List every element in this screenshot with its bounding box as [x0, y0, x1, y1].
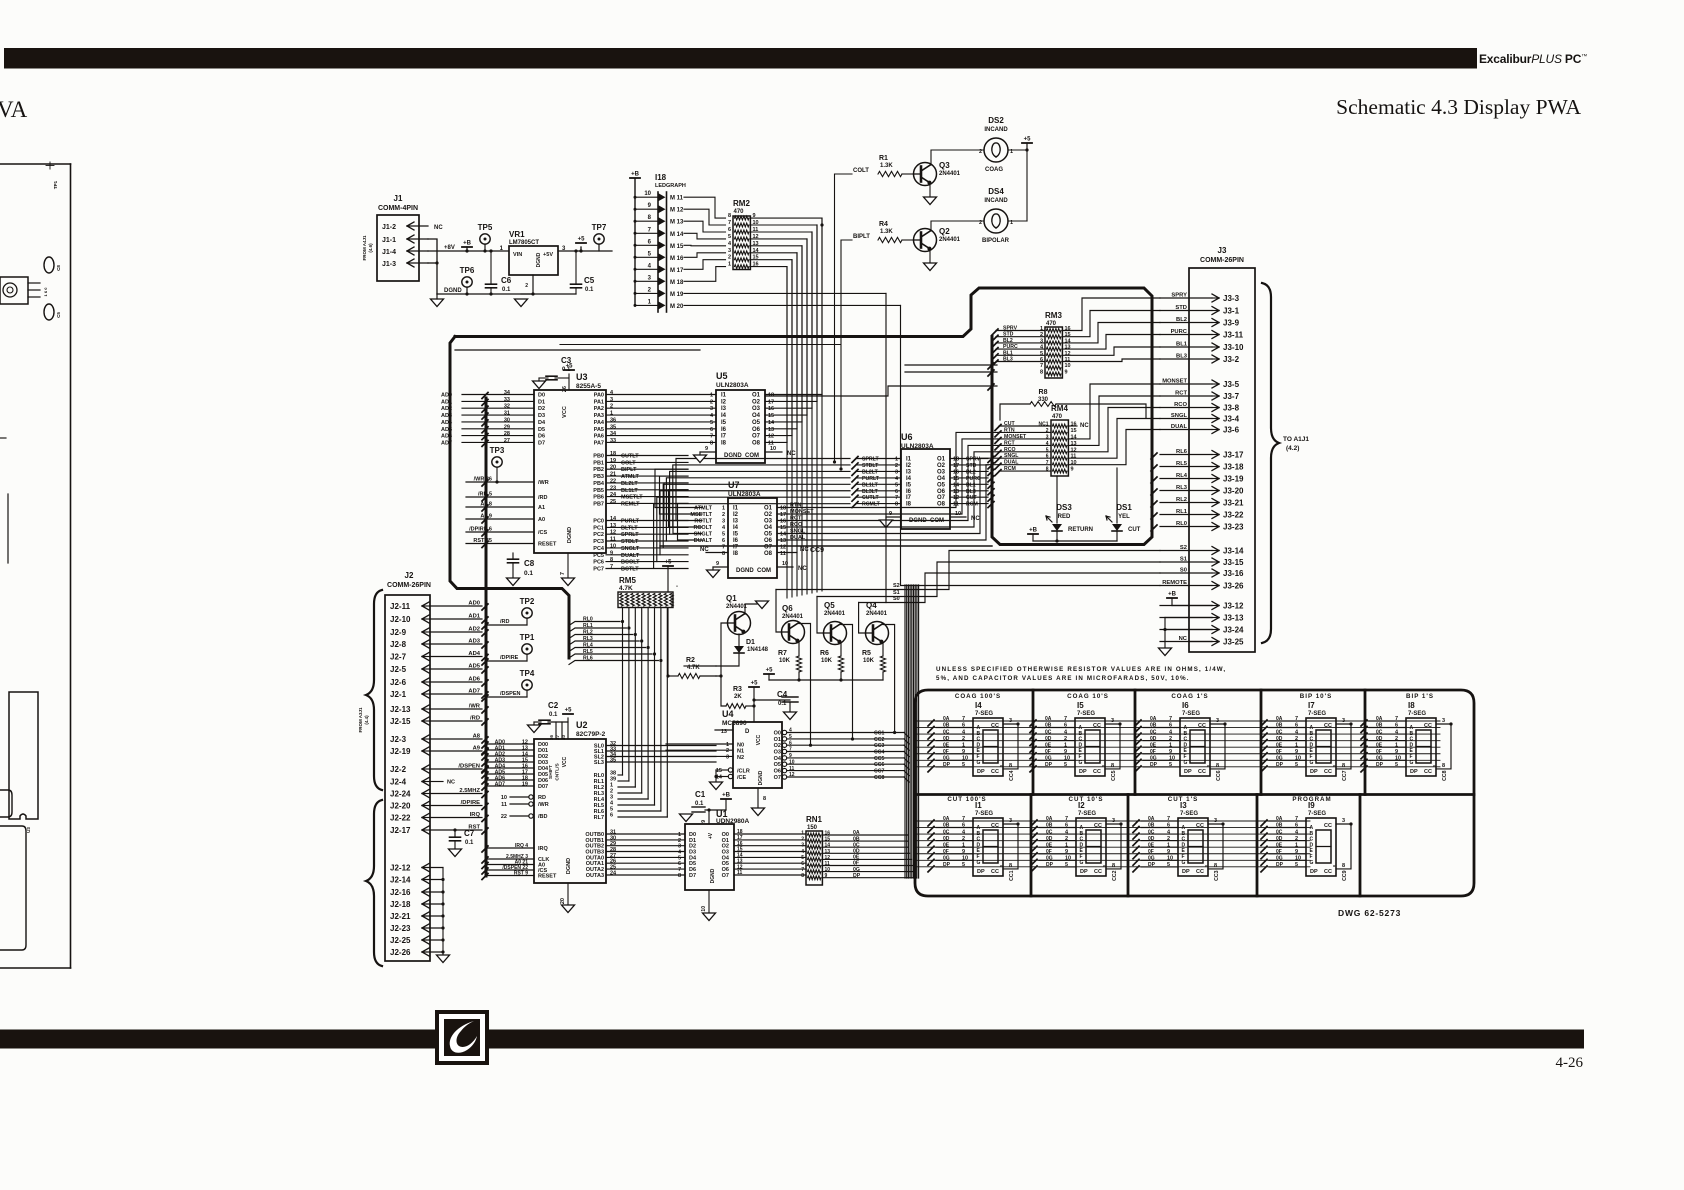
- svg-text:3: 3: [726, 754, 729, 760]
- svg-text:SL3: SL3: [594, 760, 604, 766]
- svg-text:0D: 0D: [943, 736, 950, 742]
- U2 pin D00: [486, 743, 534, 745]
- svg-text:J3-23: J3-23: [1223, 523, 1244, 532]
- svg-text:0F: 0F: [943, 749, 949, 755]
- svg-text:2: 2: [1046, 428, 1049, 434]
- svg-text:SHIFT: SHIFT: [548, 765, 554, 779]
- svg-text:7: 7: [1169, 716, 1172, 722]
- svg-text:1: 1: [1395, 742, 1398, 748]
- svg-text:J2-15: J2-15: [390, 717, 411, 726]
- I3 segment pin 5 DP: [1141, 866, 1178, 868]
- svg-text:8: 8: [1216, 763, 1219, 769]
- svg-text:0C: 0C: [1148, 829, 1155, 835]
- svg-text:PA4: PA4: [594, 420, 605, 426]
- I4 segment pin 2 0D: [936, 740, 973, 742]
- J3 pin J3-19 net RL4: [1160, 478, 1212, 480]
- J3 pin J3-17 net RL6: [1160, 454, 1212, 456]
- top header bar: [4, 48, 1477, 69]
- svg-text:1: 1: [962, 842, 965, 848]
- svg-text:CUT: CUT: [966, 495, 977, 501]
- svg-text:1: 1: [1065, 842, 1068, 848]
- svg-text:PB5: PB5: [593, 488, 604, 494]
- I2 segment pin 5 DP: [1039, 866, 1076, 868]
- svg-text:J3-1: J3-1: [1223, 307, 1240, 316]
- svg-text:J2-25: J2-25: [390, 936, 411, 945]
- svg-text:DGND: DGND: [710, 868, 716, 883]
- svg-text:DP: DP: [977, 869, 985, 875]
- U3 pin 36 /WR net /WR: [466, 481, 534, 483]
- svg-text:I8: I8: [906, 502, 912, 508]
- svg-text:AD3: AD3: [441, 413, 452, 419]
- svg-text:/CE: /CE: [737, 775, 747, 781]
- test point TP5: [480, 234, 490, 244]
- U6 pin I4 net PURLT: [852, 476, 858, 482]
- svg-text:DGND: DGND: [567, 527, 573, 543]
- svg-text:I18: I18: [655, 173, 667, 182]
- J3 ground at bottom: [1164, 618, 1166, 649]
- U6 pin I5 net BL1LT: [852, 482, 858, 488]
- svg-text:D0: D0: [538, 393, 545, 399]
- wire net M20 long: [684, 304, 901, 306]
- svg-text:BL2LT: BL2LT: [862, 469, 879, 475]
- svg-text:C8: C8: [524, 559, 535, 568]
- svg-text:STD: STD: [966, 463, 977, 469]
- svg-text:NC: NC: [1080, 423, 1089, 429]
- svg-text:8: 8: [1111, 763, 1114, 769]
- svg-text:J3-10: J3-10: [1223, 343, 1244, 352]
- display assembly outline: [915, 690, 1474, 896]
- svg-text:2N4401: 2N4401: [782, 614, 804, 620]
- svg-text:RM2: RM2: [733, 199, 750, 208]
- svg-text:33: 33: [504, 397, 510, 403]
- svg-text:DP: DP: [853, 873, 861, 879]
- capacitor C7: [453, 828, 456, 831]
- svg-text:CC: CC: [1196, 869, 1204, 875]
- bus trunk J2 side: [485, 398, 488, 876]
- RM4 input net CUT: [995, 425, 1001, 431]
- svg-text:6: 6: [722, 538, 725, 544]
- svg-text:5: 5: [1395, 762, 1398, 768]
- svg-text:11: 11: [1065, 357, 1071, 363]
- svg-text:3: 3: [1342, 818, 1345, 824]
- svg-text:0C: 0C: [943, 729, 950, 735]
- svg-text:J3-2: J3-2: [1223, 355, 1240, 364]
- svg-text:J2-2: J2-2: [390, 765, 407, 774]
- svg-text:18: 18: [780, 506, 786, 512]
- svg-text:M 18: M 18: [670, 280, 684, 286]
- svg-text:Q5: Q5: [824, 601, 835, 610]
- svg-text:2: 2: [801, 837, 804, 843]
- svg-text:SNGLT: SNGLT: [694, 532, 713, 538]
- svg-text:2: 2: [1064, 736, 1067, 742]
- I9 segment pin 6 0B: [1269, 827, 1306, 829]
- svg-text:13: 13: [768, 427, 774, 433]
- svg-text:I1: I1: [906, 457, 912, 463]
- svg-text:G: G: [1184, 760, 1188, 766]
- U3 pin PB5 net BL1LT: [606, 489, 688, 491]
- svg-text:I4: I4: [721, 413, 727, 419]
- svg-text:5: 5: [1064, 762, 1067, 768]
- svg-text:2: 2: [1295, 736, 1298, 742]
- svg-text:0.1: 0.1: [465, 840, 474, 846]
- svg-text:J1-1: J1-1: [382, 237, 396, 244]
- svg-text:28: 28: [504, 431, 510, 437]
- svg-text:24: 24: [610, 871, 617, 877]
- svg-text:COMM-26PIN: COMM-26PIN: [387, 582, 431, 589]
- svg-text:3: 3: [710, 406, 713, 412]
- test point TP7: [594, 234, 604, 244]
- svg-text:+B: +B: [722, 793, 731, 799]
- svg-text:0B: 0B: [1148, 823, 1155, 829]
- svg-text:0B: 0B: [1150, 723, 1157, 729]
- svg-text:1: 1: [726, 742, 729, 748]
- svg-text:18: 18: [953, 457, 959, 463]
- svg-text:REMLT: REMLT: [621, 501, 640, 507]
- svg-text:7: 7: [1064, 716, 1067, 722]
- U6 pin I6 net BL3LT: [852, 489, 858, 495]
- svg-text:G: G: [1310, 760, 1314, 766]
- U3 pin PC3 net STDLT: [606, 540, 688, 542]
- svg-text:8: 8: [610, 557, 613, 563]
- U3 pin 9 A0 net A0: [466, 518, 534, 520]
- svg-text:PURC: PURC: [1171, 329, 1188, 335]
- svg-text:0C: 0C: [1376, 729, 1383, 735]
- svg-text:13: 13: [1071, 441, 1077, 447]
- svg-text:G: G: [1079, 760, 1083, 766]
- svg-text:16: 16: [768, 406, 774, 412]
- svg-text:8: 8: [1214, 863, 1217, 869]
- NC at J3-25: [1190, 641, 1212, 643]
- I5 segment pin 9 0F: [1038, 753, 1075, 755]
- svg-text:J3-19: J3-19: [1223, 475, 1244, 484]
- svg-text:RL2: RL2: [583, 630, 593, 636]
- svg-text:+B: +B: [1168, 592, 1177, 598]
- svg-text:35: 35: [610, 758, 616, 764]
- wire VR1 output +5 rail: [558, 250, 612, 252]
- svg-text:J3-5: J3-5: [1223, 380, 1240, 389]
- I3 segment pin 1 0E: [1141, 846, 1178, 848]
- svg-text:10: 10: [1295, 856, 1301, 862]
- I9 segment pin 2 0D: [1269, 840, 1306, 842]
- svg-text:7: 7: [962, 716, 965, 722]
- RM3 input net BL3: [992, 360, 998, 366]
- svg-text:11: 11: [501, 802, 507, 808]
- svg-text:PC1: PC1: [593, 525, 604, 531]
- svg-text:CC: CC: [1324, 769, 1332, 775]
- U2 ground pin 20: [567, 883, 569, 905]
- wire RM2 pin 13 drop: [750, 246, 802, 595]
- wire RCT riser: [806, 445, 1000, 520]
- svg-text:I1: I1: [721, 393, 727, 399]
- svg-text:CUTLT: CUTLT: [862, 495, 879, 501]
- svg-text:6: 6: [1169, 723, 1172, 729]
- svg-text:I9: I9: [1308, 801, 1315, 810]
- svg-text:IRQ: IRQ: [470, 812, 481, 818]
- RL0-RL6 net stubs from bus: [569, 622, 620, 626]
- svg-text:DS3: DS3: [1056, 503, 1072, 512]
- svg-text:O4: O4: [937, 476, 946, 482]
- svg-text:/DPIRE: /DPIRE: [500, 655, 519, 661]
- svg-text:PURLT: PURLT: [862, 476, 880, 482]
- svg-text:R7: R7: [778, 650, 787, 657]
- J3 pin J3-3 net SPRY: [1160, 297, 1212, 299]
- U3 pin PA4: [606, 421, 716, 423]
- svg-text:R5: R5: [862, 650, 871, 657]
- svg-text:RM3: RM3: [1045, 311, 1062, 320]
- svg-text:10: 10: [782, 561, 788, 567]
- svg-text:COAG 1'S: COAG 1'S: [1171, 693, 1208, 700]
- svg-text:C5: C5: [584, 276, 595, 285]
- footer logo box: [437, 1012, 487, 1063]
- wire feeder to bus lower: [905, 371, 997, 373]
- I1 segment pin 1 0E: [936, 846, 973, 848]
- svg-text:2N4401: 2N4401: [939, 171, 961, 177]
- J3 pin J3-13 net none: [1160, 617, 1212, 619]
- svg-text:DP: DP: [1080, 869, 1088, 875]
- svg-text:I7: I7: [721, 434, 727, 440]
- svg-text:I4: I4: [906, 476, 912, 482]
- U2 pin D06: [486, 779, 534, 781]
- VR1 ground pin 2: [532, 275, 534, 294]
- svg-text:/CLR: /CLR: [737, 769, 750, 775]
- svg-text:0C: 0C: [1150, 729, 1157, 735]
- svg-text:PC2: PC2: [593, 532, 604, 538]
- svg-text:BL3: BL3: [1003, 357, 1013, 363]
- wire MONSET riser: [806, 439, 1000, 514]
- svg-text:PA1: PA1: [594, 399, 604, 405]
- 7-seg display I5: [1075, 718, 1105, 776]
- svg-text:SPRLT: SPRLT: [862, 457, 879, 463]
- svg-text:BL2: BL2: [1176, 317, 1187, 323]
- svg-text:RL5: RL5: [1176, 461, 1188, 467]
- svg-text:5: 5: [1295, 862, 1298, 868]
- svg-text:8255A-5: 8255A-5: [576, 383, 601, 390]
- svg-text:CUT: CUT: [1128, 527, 1141, 533]
- svg-text:3: 3: [801, 843, 804, 849]
- svg-text:1: 1: [1295, 742, 1298, 748]
- J3 pin J3-10 net BL1: [1160, 346, 1212, 348]
- U3 pin PA7: [606, 441, 716, 443]
- svg-text:J2: J2: [405, 571, 414, 580]
- U3 pin PC7 net BCTLT: [606, 568, 688, 570]
- svg-text:/RD 5: /RD 5: [478, 492, 492, 498]
- svg-text:RESET: RESET: [538, 874, 557, 880]
- J3 pin J3-26 net REMOTE: [1160, 585, 1212, 587]
- I7 segment pin 1 0E: [1269, 746, 1306, 748]
- J3 brace TO A1J1: [1262, 283, 1279, 643]
- svg-text:5: 5: [1065, 862, 1068, 868]
- J3 pin J3-2 net BL3: [1160, 358, 1212, 360]
- svg-text:0F: 0F: [1376, 749, 1382, 755]
- wire I18 M13 to RM2 pin 6: [684, 221, 726, 232]
- svg-text:AD7: AD7: [468, 689, 480, 695]
- U6 pin I8 net RCMLT: [852, 502, 858, 508]
- wire RM2 pin 11 drop: [750, 232, 812, 593]
- svg-text:NC: NC: [971, 516, 980, 522]
- svg-text:J2-13: J2-13: [390, 705, 411, 714]
- svg-text:M 19: M 19: [670, 292, 684, 298]
- I3 common cathode loop: [1208, 824, 1223, 869]
- svg-text:CC8: CC8: [874, 775, 884, 781]
- svg-text:10: 10: [962, 856, 968, 862]
- svg-text:16: 16: [1065, 326, 1071, 332]
- svg-text:J2-26: J2-26: [390, 948, 411, 957]
- ground symbol at VR1: [515, 299, 528, 307]
- svg-text:I2: I2: [721, 399, 727, 405]
- svg-text:SPRV: SPRV: [966, 457, 981, 463]
- svg-text:7: 7: [560, 572, 566, 575]
- svg-text:PB2: PB2: [593, 467, 604, 473]
- svg-text:5: 5: [1167, 862, 1170, 868]
- svg-text:VR1: VR1: [509, 230, 525, 239]
- svg-text:2: 2: [1169, 736, 1172, 742]
- RM3 input net BL1: [992, 354, 998, 360]
- 7-seg display I3: [1178, 818, 1208, 876]
- svg-text:RCM: RCM: [1004, 466, 1016, 472]
- svg-text:I6: I6: [733, 538, 739, 544]
- svg-text:I3: I3: [733, 519, 739, 525]
- test point TP4: [522, 680, 532, 690]
- svg-text:S0: S0: [893, 596, 900, 602]
- svg-text:4: 4: [1046, 441, 1049, 447]
- svg-text:0C: 0C: [1276, 729, 1283, 735]
- I3 segment pin 7 0A: [1141, 820, 1178, 822]
- I5 segment pin 5 DP: [1038, 766, 1075, 768]
- svg-text:RL6: RL6: [1176, 449, 1188, 455]
- U3 pin PC0 net PURLT: [606, 520, 688, 522]
- svg-text:6: 6: [962, 723, 965, 729]
- wires RM4 outputs to J3: [1068, 384, 1160, 439]
- svg-text:STD: STD: [1175, 305, 1187, 311]
- svg-text:INCAND: INCAND: [984, 127, 1008, 133]
- svg-text:BLTLT: BLTLT: [621, 525, 638, 531]
- svg-text:J2-19: J2-19: [390, 747, 411, 756]
- svg-text:TO A1J1: TO A1J1: [1283, 436, 1309, 443]
- svg-text:U5: U5: [716, 371, 728, 381]
- svg-text:J3-21: J3-21: [1223, 499, 1244, 508]
- wire Q1 base from R2: [716, 623, 727, 676]
- ground at Q2: [929, 249, 931, 263]
- svg-text:10K: 10K: [863, 658, 875, 664]
- svg-text:11: 11: [610, 537, 616, 543]
- svg-text:7-SEG: 7-SEG: [975, 711, 993, 717]
- RM3 input net STD: [992, 335, 998, 341]
- svg-text:RST 35: RST 35: [473, 538, 492, 544]
- svg-text:RED: RED: [1058, 514, 1071, 520]
- svg-text:0E: 0E: [943, 842, 950, 848]
- svg-text:CC: CC: [1196, 823, 1204, 829]
- svg-text:RCMLT: RCMLT: [862, 502, 881, 508]
- wire REMOTE: [901, 305, 1161, 585]
- svg-text:1: 1: [962, 742, 965, 748]
- svg-text:COAG 100'S: COAG 100'S: [955, 693, 1001, 700]
- svg-text:DUAL: DUAL: [1004, 460, 1019, 466]
- svg-text:DUALT: DUALT: [621, 553, 640, 559]
- svg-text:0F: 0F: [1276, 849, 1282, 855]
- svg-text:7-SEG: 7-SEG: [1408, 711, 1426, 717]
- svg-text:34: 34: [610, 431, 617, 437]
- svg-text:CC4: CC4: [1009, 770, 1015, 780]
- svg-text:2: 2: [610, 404, 613, 410]
- svg-text:J2-1: J2-1: [390, 690, 407, 699]
- svg-text:PA2: PA2: [594, 406, 604, 412]
- svg-text:8: 8: [763, 796, 766, 802]
- svg-text:26: 26: [562, 386, 568, 392]
- svg-text:COLT: COLT: [621, 460, 636, 466]
- I8 segment pin 2 0D: [1369, 740, 1406, 742]
- svg-text:BIPLT: BIPLT: [621, 467, 637, 473]
- svg-text:9: 9: [1295, 749, 1298, 755]
- svg-text:6: 6: [801, 861, 804, 867]
- svg-text:+5V: +5V: [543, 252, 553, 258]
- U6 pin I2 net STDLT: [852, 463, 858, 469]
- svg-text:CUT: CUT: [1004, 421, 1015, 427]
- svg-text:J3-13: J3-13: [1223, 614, 1244, 623]
- svg-text:9: 9: [1065, 849, 1068, 855]
- U3 pin PC5 net DUALT: [606, 554, 688, 556]
- svg-text:CC9: CC9: [810, 547, 824, 554]
- svg-text:2: 2: [525, 283, 528, 289]
- svg-text:DGND: DGND: [444, 288, 462, 294]
- svg-text:O4: O4: [752, 413, 761, 419]
- svg-text:3: 3: [1442, 718, 1445, 724]
- svg-text:CC: CC: [991, 869, 999, 875]
- wire Q3 collector to DS2: [931, 150, 984, 165]
- svg-text:/RD: /RD: [500, 619, 510, 625]
- svg-text:1 6 0: 1 6 0: [43, 287, 48, 297]
- svg-text:O5: O5: [937, 482, 946, 488]
- svg-text:MSETLT: MSETLT: [690, 512, 712, 518]
- U2 pin D07: [486, 785, 534, 787]
- wire feeder to bus upper: [905, 364, 997, 366]
- I4 segment pin 5 DP: [936, 766, 973, 768]
- svg-text:14: 14: [768, 420, 775, 426]
- svg-text:Q4: Q4: [866, 601, 877, 610]
- svg-text:J2-4: J2-4: [390, 778, 407, 787]
- svg-text:RL7: RL7: [594, 815, 604, 821]
- I2 segment pin 1 0E: [1039, 846, 1076, 848]
- svg-text:13: 13: [1065, 345, 1071, 351]
- I1 segment pin 7 0A: [936, 820, 973, 822]
- svg-text:1: 1: [710, 393, 713, 399]
- svg-text:I7: I7: [1308, 701, 1315, 710]
- svg-text:S1: S1: [1180, 557, 1188, 563]
- bottom row right edge: [1359, 795, 1362, 897]
- bottom footer bar: [0, 1030, 1584, 1049]
- wire S1: [817, 562, 1160, 597]
- svg-text:8: 8: [1442, 763, 1445, 769]
- svg-text:DP: DP: [1310, 869, 1318, 875]
- svg-text:STD: STD: [1003, 332, 1014, 338]
- svg-text:9: 9: [1295, 849, 1298, 855]
- svg-text:6: 6: [1395, 723, 1398, 729]
- svg-text:DP: DP: [1410, 769, 1418, 775]
- svg-text:19: 19: [610, 458, 616, 464]
- svg-text:I3: I3: [1180, 801, 1187, 810]
- svg-text:7: 7: [1395, 716, 1398, 722]
- svg-text:BIPLT: BIPLT: [853, 234, 870, 240]
- svg-text:0E: 0E: [1045, 742, 1052, 748]
- svg-text:I2: I2: [1078, 801, 1085, 810]
- svg-text:RL1: RL1: [583, 623, 593, 629]
- svg-text:CC: CC: [991, 723, 999, 729]
- svg-text:8: 8: [1009, 763, 1012, 769]
- svg-text:AD5: AD5: [441, 427, 452, 433]
- svg-text:(4.4): (4.4): [364, 715, 369, 725]
- svg-text:M 15: M 15: [670, 244, 684, 250]
- svg-text:7-SEG: 7-SEG: [1078, 811, 1096, 817]
- svg-text:AD2: AD2: [441, 406, 452, 412]
